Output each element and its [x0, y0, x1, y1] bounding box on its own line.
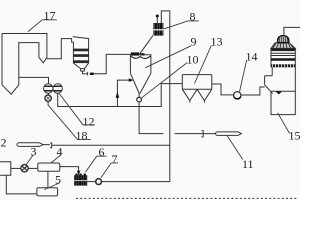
wire ESP outlet to fan 14 [212, 84, 234, 95]
ESP hopper right [197, 89, 212, 100]
leader 4 [51, 155, 61, 163]
svg-text:9: 9 [191, 35, 197, 49]
svg-text:13: 13 [211, 35, 223, 49]
ID fan 12 right circle [53, 84, 62, 93]
boiler 17 outline [2, 34, 47, 95]
svg-text:7: 7 [112, 152, 118, 166]
wire fan 14 to absorber inlet [241, 87, 265, 95]
wire lance 3 to fitting [43, 144, 50, 146]
svg-text:3: 3 [31, 145, 37, 159]
svg-text:12: 12 [83, 115, 95, 129]
leader 9 [145, 46, 191, 68]
cyclone inlet dark box 2 [140, 53, 144, 55]
leader 13 [195, 46, 212, 84]
cyclone inlet dark box [131, 52, 140, 55]
leader 5 [44, 183, 59, 190]
air heater band 3 [73, 60, 88, 63]
svg-text:6: 6 [99, 145, 105, 159]
absorber spray lines [271, 53, 295, 55]
cyclone swirl arcs [131, 56, 151, 58]
valve flange bracket [87, 72, 89, 76]
absorber 15 inlet mouth [265, 76, 273, 94]
bracket fitting at lance 3 [50, 143, 52, 148]
wire left fan to drain valve 18 [47, 93, 49, 95]
air heater band 1 [73, 49, 88, 52]
ID fan 12 left circle [44, 84, 53, 93]
wire valve 10 down and right to lance 11 (gap at main pipe crossing) [139, 102, 216, 134]
absorber dome top [278, 36, 289, 43]
leader 18 [48, 105, 91, 139]
svg-text:5: 5 [55, 173, 61, 187]
leader 7 [101, 163, 118, 178]
ESP hopper left [182, 89, 197, 100]
arrow up on riser [116, 92, 120, 98]
booster fan 14 [234, 92, 241, 99]
injection lance 3 [17, 143, 43, 147]
cyclone 9 body [130, 55, 151, 94]
svg-text:15: 15 [289, 129, 301, 143]
svg-text:4: 4 [57, 145, 63, 159]
absorber 15 body [271, 48, 295, 114]
svg-text:8: 8 [190, 10, 196, 24]
wire furnace to ID fans [19, 77, 49, 84]
bracket fitting at lance 11 [202, 131, 204, 137]
leader 17 [28, 20, 57, 32]
rotary valve 10 [137, 97, 142, 102]
wire box4 to box5 [47, 171, 49, 188]
ESP 13 box [182, 75, 212, 90]
arrow right into cone [129, 78, 134, 82]
leader lines [27, 20, 290, 190]
pump 3 [21, 165, 28, 172]
absorber band A [271, 49, 295, 52]
wire boiler exit duct to air heater [47, 39, 74, 59]
air heater outlet stub [81, 69, 85, 71]
pump 7 [96, 179, 102, 185]
wire pump 3 to box 4 [28, 167, 38, 169]
wire tank to pump 3 [11, 167, 21, 169]
tank 1 box [0, 162, 11, 176]
svg-text:2: 2 [1, 136, 7, 150]
feeder 8 body [153, 23, 163, 36]
air heater vessel U2 body [73, 37, 89, 69]
wire stack outlet [284, 27, 300, 36]
absorber shoulder hatched [271, 43, 295, 49]
feeder 8 agitator stub [156, 17, 158, 23]
wire air heater outlet to riser [83, 54, 131, 73]
box 4 [38, 163, 60, 171]
leader 6 [85, 156, 106, 172]
absorber band B [271, 58, 295, 61]
wire mixer 6 to pump 7 [87, 181, 95, 183]
wire tank bottom to box 5 [6, 175, 37, 194]
leader 10 [141, 63, 187, 99]
svg-text:10: 10 [187, 53, 199, 67]
wire over-top pipe from feeder 8 and main riser pipe [161, 11, 170, 182]
wire fan discharge duct to ESP [58, 84, 183, 107]
leader 3 [27, 155, 34, 165]
absorber band C hatched [271, 64, 295, 67]
leader 8 [164, 21, 199, 29]
svg-text:17: 17 [44, 9, 56, 23]
svg-text:18: 18 [76, 129, 88, 143]
mixer 6 body [74, 175, 87, 185]
valve V1 dark body [90, 73, 94, 75]
wire fitting to main riser pipe [52, 144, 170, 146]
absorber inlet arrow [275, 91, 282, 94]
absorber liquid level line [271, 90, 295, 92]
dashed boundary line [76, 197, 297, 199]
leader 11 [227, 136, 243, 160]
drain stub [47, 102, 49, 106]
wire pump 7 to main riser [102, 181, 170, 183]
leader 15 [278, 113, 290, 134]
box 5 [37, 188, 58, 196]
air heater band 2 [73, 54, 88, 57]
ESP hopper stubs [190, 101, 205, 103]
wire feed from feeder 8 to cyclone [140, 36, 153, 54]
wire box 4 to mixer 6 [60, 167, 79, 176]
svg-text:11: 11 [242, 157, 254, 171]
injection lance 11 [216, 132, 242, 136]
cyclone tip stub [138, 94, 140, 98]
leader 12 [59, 93, 96, 125]
mixer 6 inlet blob [77, 171, 80, 175]
svg-text:14: 14 [246, 50, 258, 64]
drain valve 18 [45, 95, 51, 101]
leader 14 [240, 60, 247, 92]
riser arrow pipe into cyclone cone [117, 80, 129, 106]
feeder 8 agitator dot [156, 15, 159, 18]
